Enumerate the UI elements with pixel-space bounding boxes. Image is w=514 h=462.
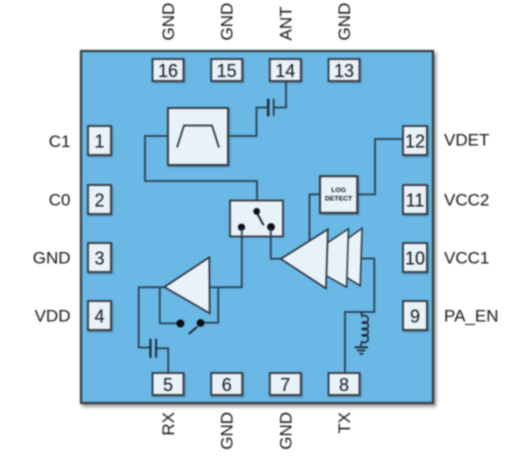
svg-text:6: 6 bbox=[222, 375, 232, 395]
LNA amplifier A1 bbox=[164, 257, 209, 313]
PA amplifier stage 1 (front triangle) bbox=[281, 229, 328, 288]
pin 5 bbox=[153, 373, 184, 395]
net label RX (pin 5) bbox=[159, 412, 178, 436]
inductor L1 (bias choke) bbox=[361, 312, 368, 347]
pin 4 bbox=[88, 301, 111, 330]
wire: antenna cap to pin 14 (ANT) bbox=[275, 81, 287, 108]
chip body bbox=[81, 51, 433, 403]
wire: SW1 left throw down to LNA input bbox=[210, 229, 242, 288]
svg-text:16: 16 bbox=[158, 61, 178, 81]
wire: LOG DETECT input from PA bbox=[310, 194, 321, 240]
wire: LNA output branch down to bypass switch left bbox=[160, 287, 177, 323]
svg-text:GND: GND bbox=[159, 3, 178, 41]
LOG DETECT block U2 bbox=[320, 176, 357, 213]
svg-text:VCC1: VCC1 bbox=[444, 249, 489, 268]
SW1 common pole dot bbox=[253, 208, 260, 215]
wire: filter output to antenna coupling cap bbox=[228, 108, 267, 137]
pin 11 bbox=[403, 185, 427, 214]
capacitor C-ANT (antenna coupling) bbox=[268, 99, 274, 117]
svg-text:14: 14 bbox=[275, 61, 295, 81]
net label GND (pin 13) bbox=[335, 3, 354, 41]
svg-text:4: 4 bbox=[94, 306, 104, 326]
svg-text:VDD: VDD bbox=[35, 307, 71, 326]
pin 12 bbox=[403, 126, 427, 155]
PA amplifier stage 2 (middle triangle) bbox=[300, 229, 349, 287]
svg-text:1: 1 bbox=[94, 131, 104, 151]
net label C1 (pin 1) bbox=[49, 132, 71, 151]
svg-text:PA_EN: PA_EN bbox=[444, 307, 499, 326]
net label GND (pin 6) bbox=[218, 412, 237, 450]
pin 14 bbox=[270, 59, 301, 81]
svg-text:5: 5 bbox=[163, 375, 173, 395]
pin 7 bbox=[270, 373, 301, 395]
net label VCC1 (pin 10) bbox=[444, 249, 489, 268]
PA amplifier stage 3 (back triangle) bbox=[318, 228, 362, 286]
wire: SW1 right throw down to PA output bbox=[271, 229, 281, 259]
svg-text:8: 8 bbox=[339, 375, 349, 395]
svg-text:11: 11 bbox=[406, 190, 425, 210]
pin 10 bbox=[403, 243, 427, 272]
net label VDET (pin 12) bbox=[444, 131, 489, 150]
wire: filter input to antenna switch common bbox=[145, 136, 257, 210]
SW1 left throw dot bbox=[238, 224, 245, 231]
pin 2 bbox=[88, 185, 111, 214]
wire: RX cap to pin 5 (RX) bbox=[157, 348, 168, 373]
wire: LOG DETECT output to pin 12 (VDET) bbox=[357, 139, 403, 194]
net label ANT (pin 14) bbox=[276, 7, 295, 41]
svg-text:DETECT: DETECT bbox=[325, 195, 353, 202]
svg-text:RX: RX bbox=[159, 412, 178, 436]
pin 13 bbox=[329, 59, 360, 81]
SW1 lever bbox=[257, 214, 263, 226]
svg-text:13: 13 bbox=[334, 61, 354, 81]
wire: LNA input branch down to bypass switch right bbox=[204, 287, 218, 323]
svg-text:3: 3 bbox=[94, 248, 104, 268]
wire: PA input from pin 8 (TX) with bias tap bbox=[345, 259, 374, 374]
pin 6 bbox=[211, 373, 242, 395]
pin 3 bbox=[88, 243, 111, 272]
svg-text:LOG: LOG bbox=[331, 187, 346, 194]
svg-text:VCC2: VCC2 bbox=[444, 191, 489, 210]
svg-text:12: 12 bbox=[405, 131, 425, 151]
LNA bypass switch SW2 left dot bbox=[176, 320, 184, 328]
pin 1 bbox=[88, 126, 111, 155]
net label PA_EN (pin 9) bbox=[444, 307, 499, 326]
pin 15 bbox=[211, 59, 242, 81]
net label TX (pin 8) bbox=[335, 412, 354, 434]
net label VDD (pin 4) bbox=[35, 307, 71, 326]
pin 8 bbox=[329, 373, 360, 395]
pin 16 bbox=[153, 59, 184, 81]
svg-text:C1: C1 bbox=[49, 132, 71, 151]
SW2 lever bbox=[189, 327, 197, 334]
svg-text:VDET: VDET bbox=[444, 131, 489, 150]
net label GND (pin 15) bbox=[218, 3, 237, 41]
bandpass filter FL1 bbox=[168, 108, 228, 165]
net label C0 (pin 2) bbox=[49, 191, 71, 210]
svg-text:GND: GND bbox=[33, 249, 71, 268]
ground bbox=[355, 347, 368, 354]
wire: LNA output to RX coupling cap bbox=[139, 287, 165, 347]
svg-text:15: 15 bbox=[217, 61, 237, 81]
svg-text:7: 7 bbox=[280, 375, 290, 395]
svg-text:ANT: ANT bbox=[276, 7, 295, 41]
svg-text:GND: GND bbox=[218, 3, 237, 41]
net label GND (pin 3) bbox=[33, 249, 71, 268]
svg-text:10: 10 bbox=[405, 248, 425, 268]
antenna switch SW1 (SPDT) box bbox=[230, 201, 283, 237]
pin 9 bbox=[403, 301, 427, 330]
svg-text:GND: GND bbox=[218, 412, 237, 450]
net label GND (pin 7) bbox=[276, 412, 295, 450]
svg-text:GND: GND bbox=[335, 3, 354, 41]
capacitor C-RX (RX coupling) bbox=[150, 339, 156, 358]
LNA bypass switch SW2 right dot bbox=[197, 319, 205, 327]
net label VCC2 (pin 11) bbox=[444, 191, 489, 210]
svg-text:9: 9 bbox=[410, 306, 420, 326]
net label GND (pin 16) bbox=[159, 3, 178, 41]
svg-text:C0: C0 bbox=[49, 191, 71, 210]
svg-text:2: 2 bbox=[94, 190, 104, 210]
svg-text:TX: TX bbox=[335, 412, 354, 434]
SW1 right throw dot bbox=[267, 223, 275, 231]
svg-text:GND: GND bbox=[276, 412, 295, 450]
